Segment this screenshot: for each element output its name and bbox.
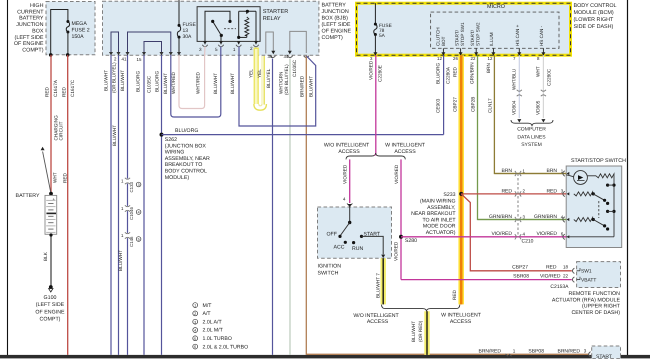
svg-text:C2153A: C2153A — [550, 284, 569, 290]
svg-text:OF ENGINE: OF ENGINE — [14, 41, 44, 47]
svg-text:ASSEMBLY,: ASSEMBLY, — [427, 205, 455, 211]
svg-text:VD805: VD805 — [535, 100, 540, 115]
svg-text:RED: RED — [546, 265, 557, 271]
svg-text:BLU/WHT 7: BLU/WHT 7 — [375, 273, 380, 298]
svg-text:ILLUM: ILLUM — [489, 32, 494, 46]
svg-text:(UPPER RIGHT: (UPPER RIGHT — [582, 304, 621, 310]
svg-text:SYSTEM: SYSTEM — [521, 142, 542, 148]
svg-text:(LEFT SIDE: (LEFT SIDE — [15, 35, 44, 41]
svg-text:BLU/WHT: BLU/WHT — [118, 250, 123, 271]
svg-text:BLU/ORG: BLU/ORG — [175, 128, 198, 134]
svg-text:BRN/RED: BRN/RED — [557, 348, 580, 354]
svg-text:VIO/RED: VIO/RED — [536, 231, 557, 237]
svg-text:VIO/RED: VIO/RED — [342, 164, 347, 184]
svg-text:(LEFT SIDE: (LEFT SIDE — [36, 302, 65, 308]
svg-text:BLU/WHT: BLU/WHT — [411, 321, 416, 342]
svg-text:S262: S262 — [165, 137, 177, 143]
svg-text:START/STOP SWITCH: START/STOP SWITCH — [571, 158, 626, 164]
svg-text:(LOWER RIGHT: (LOWER RIGHT — [574, 17, 615, 23]
svg-text:C1046: C1046 — [129, 207, 134, 220]
svg-text:ASSEMBLY, NEAR: ASSEMBLY, NEAR — [165, 156, 210, 162]
svg-text:VIO/RED: VIO/RED — [540, 273, 561, 279]
svg-text:22: 22 — [563, 273, 569, 278]
svg-text:IGNITION: IGNITION — [318, 263, 342, 269]
svg-text:15: 15 — [137, 57, 142, 62]
svg-text:VIO/RED: VIO/RED — [394, 241, 399, 261]
svg-text:GRN/BRN: GRN/BRN — [469, 62, 474, 84]
svg-text:ACCESS: ACCESS — [450, 319, 472, 325]
svg-text:FUSE 2: FUSE 2 — [72, 28, 90, 34]
svg-text:2: 2 — [250, 46, 253, 51]
svg-text:BATTERY: BATTERY — [19, 16, 44, 22]
svg-text:CENTER OF DASH): CENTER OF DASH) — [571, 310, 620, 316]
svg-text:18: 18 — [563, 265, 569, 270]
svg-text:BRN/RED: BRN/RED — [300, 75, 305, 97]
svg-text:C210: C210 — [522, 239, 534, 245]
svg-text:RED: RED — [63, 172, 68, 183]
svg-text:5A: 5A — [379, 33, 386, 39]
svg-text:5: 5 — [215, 47, 218, 52]
svg-text:BLU/WHT: BLU/WHT — [213, 73, 218, 94]
svg-text:COMPT): COMPT) — [322, 35, 343, 41]
svg-text:BRN: BRN — [486, 63, 491, 73]
svg-text:WIRING: WIRING — [165, 150, 185, 156]
svg-text:WHT/RED: WHT/RED — [171, 72, 176, 94]
svg-text:(OR RED): (OR RED) — [418, 320, 423, 342]
svg-text:5: 5 — [138, 238, 140, 242]
svg-text:STOP SW1: STOP SW1 — [460, 22, 465, 46]
svg-text:C2280E: C2280E — [377, 65, 382, 82]
svg-text:CBP27: CBP27 — [512, 265, 528, 271]
svg-text:STARTER: STARTER — [263, 9, 289, 15]
svg-text:2: 2 — [194, 312, 196, 316]
svg-text:MICRO: MICRO — [487, 4, 505, 10]
svg-text:BLK: BLK — [43, 251, 48, 261]
svg-text:RED: RED — [501, 188, 512, 194]
svg-text:CBP2B: CBP2B — [470, 97, 475, 112]
svg-text:CIRCUIT: CIRCUIT — [58, 121, 63, 140]
svg-text:C1617C: C1617C — [70, 79, 75, 97]
svg-text:S233: S233 — [443, 192, 455, 198]
svg-text:SWITCH: SWITCH — [318, 271, 339, 277]
svg-text:VIO/RED: VIO/RED — [491, 231, 512, 237]
svg-text:VIO/RED: VIO/RED — [394, 164, 399, 184]
svg-text:VD804: VD804 — [511, 100, 516, 115]
svg-text:(JUNCTION BOX: (JUNCTION BOX — [165, 143, 207, 149]
svg-text:ACC: ACC — [334, 245, 345, 251]
svg-text:START/: START/ — [454, 29, 459, 46]
svg-text:M/T: M/T — [203, 303, 213, 309]
svg-text:GRN/BRN: GRN/BRN — [489, 214, 512, 220]
svg-text:START: START — [596, 354, 612, 359]
svg-text:ACCESS: ACCESS — [394, 149, 416, 155]
svg-text:WHT/BLU: WHT/BLU — [511, 68, 516, 90]
svg-text:SIDE OF DASH): SIDE OF DASH) — [574, 24, 614, 30]
svg-text:COMPT): COMPT) — [22, 47, 43, 53]
svg-text:ACTUATOR (RFA) MODULE: ACTUATOR (RFA) MODULE — [552, 297, 621, 303]
svg-text:4: 4 — [138, 211, 140, 215]
svg-text:BLU/WHT: BLU/WHT — [104, 70, 109, 91]
svg-text:CLN17: CLN17 — [487, 98, 492, 113]
svg-text:WHT/RED: WHT/RED — [196, 72, 201, 94]
svg-text:START/: START/ — [470, 29, 475, 46]
svg-text:(OR BLU/YEL): (OR BLU/YEL) — [284, 64, 289, 95]
svg-text:BLU/ORG: BLU/ORG — [155, 71, 160, 92]
svg-text:BOX (BJB): BOX (BJB) — [322, 16, 349, 22]
svg-text:YEL: YEL — [248, 69, 253, 78]
svg-text:CURRENT: CURRENT — [17, 9, 44, 15]
svg-text:(LEFT SIDE: (LEFT SIDE — [322, 22, 351, 28]
svg-text:C1035C: C1035C — [292, 59, 297, 77]
svg-text:RELAY: RELAY — [263, 16, 281, 22]
svg-text:W INTELLIGENT: W INTELLIGENT — [385, 143, 426, 149]
svg-text:TO AIR INLET: TO AIR INLET — [422, 217, 456, 223]
svg-text:HS CAN +: HS CAN + — [515, 24, 520, 46]
svg-text:ACTUATOR): ACTUATOR) — [426, 230, 456, 236]
svg-text:26: 26 — [453, 56, 458, 61]
svg-text:3: 3 — [199, 47, 202, 52]
svg-text:WHT: WHT — [53, 172, 58, 183]
svg-text:ACCESS: ACCESS — [367, 319, 389, 325]
svg-text:BLU/WHT: BLU/WHT — [112, 125, 117, 146]
svg-text:BATTERY: BATTERY — [16, 193, 40, 199]
svg-text:BRN/RED: BRN/RED — [478, 348, 501, 354]
svg-text:C2280C: C2280C — [546, 68, 551, 86]
svg-text:BODY CONTROL: BODY CONTROL — [165, 169, 207, 175]
svg-text:5: 5 — [194, 337, 196, 341]
svg-text:BOX: BOX — [32, 28, 44, 34]
svg-text:22: 22 — [471, 56, 476, 61]
svg-text:S280: S280 — [405, 238, 417, 244]
svg-text:CBP27: CBP27 — [452, 97, 457, 112]
svg-text:VBATT: VBATT — [581, 278, 596, 284]
svg-text:(MAIN WIRING: (MAIN WIRING — [420, 199, 455, 205]
svg-text:BLU/ORG: BLU/ORG — [135, 71, 140, 92]
svg-text:A/T: A/T — [203, 311, 212, 317]
svg-text:1: 1 — [194, 304, 196, 308]
svg-text:33: 33 — [268, 54, 273, 59]
svg-text:RED: RED — [61, 86, 66, 97]
svg-text:41: 41 — [122, 57, 127, 62]
svg-text:G100: G100 — [44, 295, 57, 301]
svg-text:BLU/WHT: BLU/WHT — [163, 73, 168, 94]
svg-text:3: 3 — [194, 320, 196, 324]
svg-text:30A: 30A — [183, 34, 193, 40]
svg-text:W/O INTELLIGENT: W/O INTELLIGENT — [324, 143, 370, 149]
svg-text:RED: RED — [546, 188, 557, 194]
svg-text:1.0L TURBO: 1.0L TURBO — [203, 336, 232, 342]
svg-text:C1035C: C1035C — [146, 75, 151, 93]
svg-text:3: 3 — [584, 348, 587, 353]
svg-text:BLU/WHT: BLU/WHT — [230, 73, 235, 94]
svg-text:2.0L & 2.0L TURBO: 2.0L & 2.0L TURBO — [203, 344, 249, 350]
svg-text:BLU/ORG: BLU/ORG — [436, 63, 441, 84]
svg-text:(OR BLU/YEL): (OR BLU/YEL) — [111, 62, 116, 93]
svg-text:4: 4 — [194, 329, 196, 333]
svg-text:STOP SW2: STOP SW2 — [476, 22, 481, 46]
svg-text:HIGH: HIGH — [30, 3, 44, 9]
svg-text:BRN: BRN — [546, 168, 557, 174]
svg-text:W INTELLIGENT: W INTELLIGENT — [441, 313, 482, 319]
svg-text:SBR08: SBR08 — [513, 273, 529, 279]
svg-text:BLU/WHT: BLU/WHT — [308, 76, 313, 97]
svg-text:2.0L M/T: 2.0L M/T — [203, 328, 224, 334]
svg-text:C133: C133 — [129, 181, 134, 192]
svg-text:CE903: CE903 — [436, 98, 441, 113]
svg-text:34: 34 — [284, 54, 289, 59]
svg-text:VIO/RED: VIO/RED — [368, 60, 373, 80]
svg-text:CLUTCH: CLUTCH — [435, 27, 440, 46]
svg-text:BOT: BOT — [441, 36, 446, 46]
svg-text:1: 1 — [233, 47, 236, 52]
svg-text:ACCESS: ACCESS — [338, 149, 360, 155]
svg-text:C146: C146 — [129, 236, 134, 247]
svg-text:JUNCTION: JUNCTION — [16, 22, 43, 28]
svg-text:C1617A: C1617A — [53, 79, 58, 97]
svg-text:12: 12 — [488, 56, 493, 61]
svg-text:YEL: YEL — [257, 69, 262, 78]
svg-text:COMPT): COMPT) — [40, 317, 61, 323]
svg-text:1: 1 — [513, 348, 516, 353]
svg-text:NEAR BREAKOUT: NEAR BREAKOUT — [411, 211, 456, 217]
svg-text:RED: RED — [452, 289, 457, 300]
svg-text:MODULE): MODULE) — [165, 175, 190, 181]
svg-text:OFF: OFF — [327, 232, 337, 238]
svg-text:MODULE (BCM): MODULE (BCM) — [574, 10, 614, 16]
svg-text:GRN/BRN: GRN/BRN — [534, 214, 557, 220]
svg-text:BODY CONTROL: BODY CONTROL — [574, 3, 617, 9]
svg-text:REMOTE FUNCTION: REMOTE FUNCTION — [569, 291, 621, 297]
svg-text:C2280A: C2280A — [445, 66, 450, 84]
svg-text:BATTERY: BATTERY — [322, 3, 347, 9]
svg-text:BREAKOUT TO: BREAKOUT TO — [165, 162, 203, 168]
svg-text:RUN: RUN — [352, 246, 363, 252]
svg-text:MODE DOOR: MODE DOOR — [423, 224, 456, 230]
svg-text:2.0L A/T: 2.0L A/T — [203, 319, 223, 325]
svg-text:150A: 150A — [72, 34, 85, 40]
svg-text:12: 12 — [437, 56, 442, 61]
svg-text:JUNCTION: JUNCTION — [322, 9, 349, 15]
svg-text:COMPUTER: COMPUTER — [517, 127, 546, 133]
svg-text:RED: RED — [45, 86, 50, 97]
svg-text:MEGA: MEGA — [72, 21, 88, 27]
svg-text:OF ENGINE: OF ENGINE — [322, 29, 352, 35]
svg-text:BRN: BRN — [501, 168, 512, 174]
svg-text:SBP08: SBP08 — [528, 348, 544, 354]
svg-text:6: 6 — [194, 345, 196, 349]
svg-text:RED: RED — [452, 66, 457, 77]
svg-text:SW1: SW1 — [581, 269, 592, 275]
svg-text:WHT: WHT — [535, 66, 540, 77]
svg-text:BLU/WHT: BLU/WHT — [120, 70, 125, 91]
svg-text:WHT/GRN: WHT/GRN — [278, 72, 283, 94]
svg-text:3: 3 — [138, 183, 140, 187]
svg-text:W/O INTELLIGENT: W/O INTELLIGENT — [353, 313, 399, 319]
svg-text:OF ENGINE: OF ENGINE — [35, 309, 65, 315]
svg-text:HS CAN -: HS CAN - — [539, 25, 544, 46]
svg-text:DATA LINES: DATA LINES — [517, 134, 546, 140]
svg-text:BLU/YEL: BLU/YEL — [266, 68, 271, 88]
